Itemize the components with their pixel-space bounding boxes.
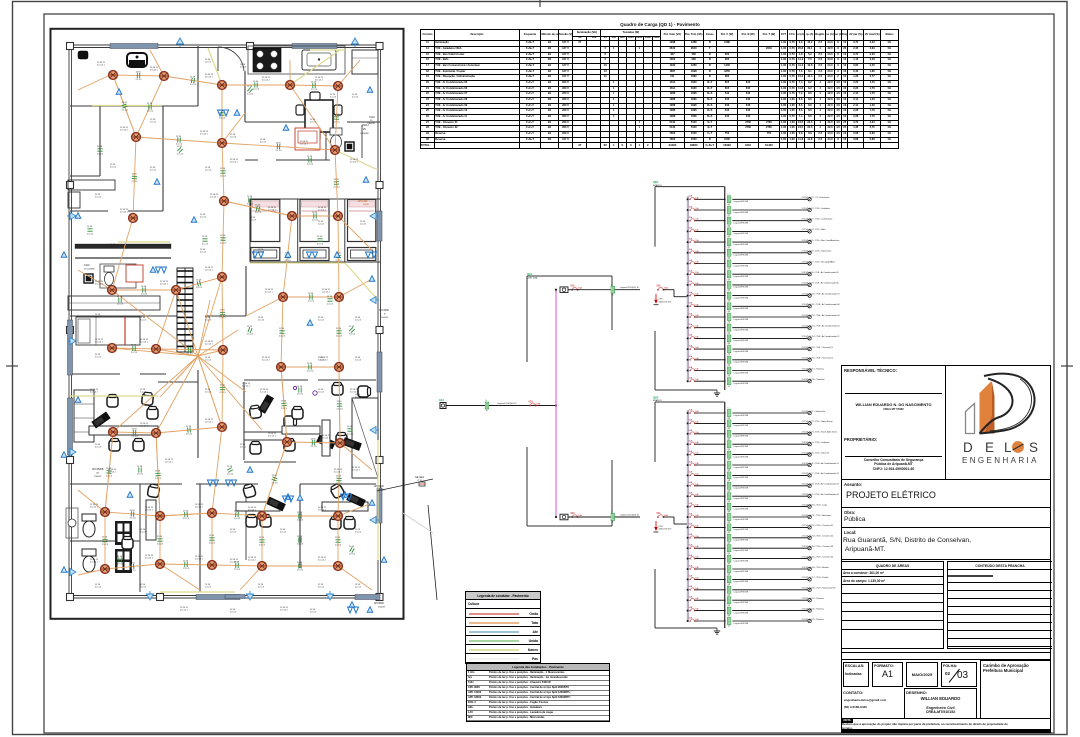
title block [841,365,1051,733]
svg-text:13 16: 13 16 [334,114,340,116]
enclosure [611,276,613,330]
lamp [808,273,811,276]
svg-text:2,5 2,5: 2,5 2,5 [150,122,157,124]
luminaire L18 [108,344,117,353]
legend row FOG 4 [467,701,609,706]
wall [70,175,100,177]
conduit tick [336,255,341,257]
svg-text:GE1: GE1 [439,399,444,402]
svg-text:Legrand FIM DIN: Legrand FIM DIN [734,339,749,342]
lamp [808,578,811,581]
svg-text:13 16: 13 16 [97,146,103,148]
conduit tick [312,440,314,445]
column [67,594,74,601]
svg-text:2#1,5(1,5) #12 - TUG - Chuvei: 2#1,5(1,5) #12 - TUG - Chuveiro 01 [802,525,834,527]
conduit tick [334,182,339,185]
svg-text:2#1,5(1,5) #21 - Reserva: 2#1,5(1,5) #21 - Reserva [802,619,825,621]
shower box [345,142,354,151]
conduit mark [727,532,731,544]
wire [198,277,222,356]
luminaire L19 [152,345,161,354]
conduit tick [220,387,225,389]
wire [105,432,113,512]
switch point [247,467,253,472]
svg-text:Legrand FIM DIN: Legrand FIM DIN [734,497,749,500]
svg-text:B: B [384,314,386,316]
wall [299,484,301,568]
svg-text:2,5 2,5: 2,5 2,5 [317,244,324,246]
wire [568,289,640,291]
breaker DJ0 [529,400,541,406]
svg-text:2,5 4,5 1: 2,5 4,5 1 [180,610,189,612]
wire [78,75,110,90]
svg-text:2#1,5(1,5) #15 - TUE - Chuvei: 2#1,5(1,5) #15 - TUE - Chuveiro 01 [802,347,834,349]
svg-text:1,5: 1,5 [727,354,730,356]
svg-text:1500W: 1500W [378,607,386,609]
svg-text:13 16: 13 16 [349,546,355,548]
svg-text:2,5 2,5: 2,5 2,5 [259,545,266,547]
point [313,391,317,395]
wire [176,290,198,356]
laptop [258,394,274,414]
lamp [808,619,811,622]
column [376,43,383,50]
chair [147,484,160,498]
svg-text:2,5 4,5 1: 2,5 4,5 1 [165,462,174,464]
lamp [808,326,811,329]
svg-text:63A: 63A [529,400,534,403]
svg-text:10A: 10A [695,431,699,434]
sink [68,519,76,527]
svg-text:2#1,5(1,5) #9 - TUE - Ar Cond: 2#1,5(1,5) #9 - TUE - Ar Condicionado 06 [802,282,840,285]
conduit mark [727,280,731,292]
svg-text:2,5 2,5: 2,5 2,5 [240,67,247,69]
wire [212,513,262,516]
wire [240,566,262,590]
svg-text:2,5 2,5: 2,5 2,5 [307,371,314,373]
svg-text:2,5 2,5: 2,5 2,5 [337,409,344,411]
svg-text:2,5 2,5: 2,5 2,5 [355,397,362,399]
camera [78,51,88,59]
svg-text:10A: 10A [695,207,699,210]
svg-text:Legrand FIM DIN: Legrand FIM DIN [734,350,749,353]
dps [654,294,672,305]
svg-text:13 16: 13 16 [141,286,147,288]
conduit mark [727,408,731,420]
branch breaker QD2-20 [689,606,700,611]
svg-text:2,5 2,5: 2,5 2,5 [308,301,315,303]
switch point [381,557,387,562]
desk [282,426,320,434]
svg-text:10A: 10A [695,357,699,360]
conduit tick [119,557,121,562]
branch node QD1-14 [687,337,689,339]
chair [133,439,144,452]
lamp [808,432,811,435]
enclosure [654,187,656,247]
leader [377,479,433,491]
svg-text:2,5 4,5 1: 2,5 4,5 1 [120,212,129,214]
switch point [150,267,156,272]
logo D thin ribbon stroke [990,379,1032,431]
branch breaker QD2-6 [689,460,700,465]
svg-text:10A: 10A [695,293,699,296]
svg-text:13 16: 13 16 [176,136,182,138]
svg-text:BIFASICO: BIFASICO [653,399,662,402]
column [67,457,74,464]
svg-text:10A: 10A [695,545,699,548]
wire [198,356,262,430]
svg-text:10A: 10A [695,524,699,527]
switch point [342,492,348,497]
chair [249,405,262,419]
svg-text:1,5: 1,5 [727,280,730,282]
branch breaker QD2-1 [689,408,700,413]
branch node QD1-11 [687,305,689,307]
svg-text:2#1,5(1,5) #1 - Iluminação: 2#1,5(1,5) #1 - Iluminação [802,410,826,413]
luminaire L35 [208,561,217,570]
wire [696,422,726,424]
svg-text:13 16: 13 16 [255,205,261,207]
svg-text:1,5: 1,5 [727,595,730,597]
wire [732,337,807,339]
wall [139,484,141,592]
svg-text:Legrand FIM DIN: Legrand FIM DIN [734,539,749,542]
luminaire L9 [129,214,138,223]
svg-text:50A: 50A [657,285,662,288]
svg-text:10A: 10A [695,218,699,221]
conduit mark [727,491,731,503]
svg-text:13 16: 13 16 [220,385,226,387]
svg-text:10A: 10A [695,250,699,253]
legend row Ate [466,627,540,636]
wire [732,284,807,286]
lamp [808,495,811,498]
wall [318,379,376,381]
conduit mark [727,301,731,313]
branch breaker QD2-5 [689,450,700,455]
svg-text:QD1: QD1 [653,180,659,184]
svg-text:2,5 2,5: 2,5 2,5 [327,304,334,306]
svg-text:2,5 2,5: 2,5 2,5 [247,204,254,206]
svg-text:10A: 10A [695,587,699,590]
wire [696,433,726,435]
svg-text:2,5 2,5: 2,5 2,5 [230,532,237,534]
lamp [808,567,811,570]
load table title [560,22,760,27]
conduit tick [133,430,136,435]
svg-text:2,5 4,5 1: 2,5 4,5 1 [160,284,169,286]
chair [284,416,297,427]
wire [732,422,807,424]
svg-text:Legrand FIM DIN: Legrand FIM DIN [734,414,749,417]
svg-text:1,5: 1,5 [727,553,730,555]
svg-text:1,5: 1,5 [727,439,730,441]
lamp [808,443,811,446]
svg-text:25: 25 [363,128,366,131]
laptop [91,412,110,429]
conduit mark [727,312,731,324]
window [377,352,382,392]
svg-text:GE GE1: GE GE1 [415,476,425,479]
svg-text:1,5: 1,5 [727,584,730,586]
svg-text:2,5 2,5: 2,5 2,5 [95,447,102,449]
wire [112,218,133,290]
wire [222,350,223,427]
svg-text:2,5 2,5: 2,5 2,5 [136,79,143,81]
wire [732,474,807,476]
stairs [177,268,193,352]
wall [162,106,164,211]
chair [334,105,342,115]
conduit mark [727,460,731,472]
laptop [316,435,336,450]
svg-text:2,5 2,5: 2,5 2,5 [219,118,226,120]
bus bar [687,410,689,622]
wire [283,296,339,298]
wire [663,289,674,291]
svg-text:2,5 2,5: 2,5 2,5 [130,518,137,520]
wall socket [247,591,254,600]
svg-text:2,5 2,5: 2,5 2,5 [355,447,362,449]
luminaire L22 [335,363,344,372]
double socket [217,110,229,116]
local row [842,528,1050,560]
svg-text:13 16: 13 16 [247,326,253,328]
svg-text:2,5 2,5: 2,5 2,5 [297,394,304,396]
svg-text:2,5 4,5 1: 2,5 4,5 1 [145,510,154,512]
svg-text:Legrand FIM DIN: Legrand FIM DIN [734,455,749,458]
lamp [808,588,811,591]
svg-text:16: 16 [611,522,613,524]
svg-text:2,5 2,5: 2,5 2,5 [183,568,190,570]
svg-text:2#1,5(1,5) #6 - TUG - Ar Cond: 2#1,5(1,5) #6 - TUG - Ar Condicionado 01 [802,462,840,465]
svg-text:2,5 4,5 1: 2,5 4,5 1 [350,162,359,164]
svg-text:Legrand FIM DIN: Legrand FIM DIN [734,243,749,246]
enclosure [654,569,656,628]
svg-text:2,5 2,5: 2,5 2,5 [276,150,283,152]
svg-text:2,5 2,5: 2,5 2,5 [97,154,104,156]
branch node QD2-16 [687,568,689,570]
svg-text:2,5 4,5 1: 2,5 4,5 1 [90,507,99,509]
wire [732,506,807,508]
branch breaker QD1-18 [689,377,700,382]
wall socket [370,297,379,304]
wire [663,516,674,518]
wire [696,337,726,339]
conduit tick [349,327,354,332]
wire [338,503,372,516]
svg-text:C4000W: C4000W [367,123,375,125]
wire [732,370,807,372]
svg-text:2,5 2,5: 2,5 2,5 [220,176,227,178]
cabinet [74,390,94,442]
enclosure [724,187,726,390]
conduit mark [727,616,731,628]
svg-text:2,5 2,5: 2,5 2,5 [258,252,265,254]
wire [262,565,338,567]
svg-text:2,5 4,5 1: 2,5 4,5 1 [318,560,327,562]
svg-text:Legrand FIM DIN: Legrand FIM DIN [734,275,749,278]
wire [113,75,164,76]
svg-text:2#1,5(1,5) #6 - TUG - Impress: 2#1,5(1,5) #6 - TUG - Impressora [802,251,833,253]
svg-text:2#1,5(1,5) #4 - TUG - Gabinet: 2#1,5(1,5) #4 - TUG - Gabinete [802,441,831,444]
switch point [285,494,291,499]
conduit tick [279,331,284,334]
wire [136,137,222,143]
svg-text:2#1,5(1,5) #14 - TUG - Chuvei: 2#1,5(1,5) #14 - TUG - Chuveiro 03 [802,546,834,548]
svg-text:2,5 2,5: 2,5 2,5 [150,170,157,172]
branch node QD1-15 [687,348,689,350]
svg-text:2,5 4,5 1: 2,5 4,5 1 [248,510,257,512]
wire [732,610,807,612]
outer wall left inner [71,47,73,596]
branch breaker QD2-3 [689,429,700,434]
drawing frame [51,29,404,619]
conduit mark [727,574,731,586]
conduit tick [139,467,141,472]
wire [156,349,223,350]
svg-text:2,5 4,5 1: 2,5 4,5 1 [230,162,239,164]
svg-text:13 16: 13 16 [122,102,128,104]
svg-text:1500W: 1500W [381,317,389,319]
wire [732,295,807,297]
wire [198,300,210,356]
svg-text:20kA 175V 8/20: 20kA 175V 8/20 [659,528,672,531]
luminaire L20 [219,346,228,355]
luminaire L28 [101,508,110,517]
sink bowl [307,53,331,66]
wall socket [352,38,359,47]
wire [732,305,807,307]
wire [112,348,198,356]
svg-text:2,5 2,5: 2,5 2,5 [87,234,94,236]
wall [70,210,108,212]
wire [283,216,292,297]
conduit tick [131,564,134,569]
conduit mark [727,584,731,596]
svg-text:2#1,5(1,5) #18 - TUG - Ilumin: 2#1,5(1,5) #18 - TUG - Iluminação Ext [802,587,836,590]
wire [198,356,222,427]
point [293,386,296,389]
svg-text:2,5 2,5: 2,5 2,5 [95,587,102,589]
wire [112,348,156,349]
chair [109,439,120,452]
counter line [68,302,160,304]
wire [732,558,807,560]
legend row Tata [466,618,540,627]
wire [78,270,112,290]
luminaire L27 [336,439,345,448]
svg-text:2#1,5(1,5) #13 - TUG - Chuvei: 2#1,5(1,5) #13 - TUG - Chuveiro 02 [802,536,834,538]
wire [696,568,726,570]
chair [242,483,256,498]
wire [696,599,726,601]
svg-text:CHU: CHU [84,263,90,267]
luminaire L6 [132,133,141,142]
svg-text:APC1500B: APC1500B [92,468,104,471]
conduit tick [247,87,252,93]
bench inner [298,131,317,143]
svg-text:2,5 4,5 1: 2,5 4,5 1 [140,426,149,428]
wall [128,210,163,212]
svg-text:Legrand 2#10(10) 10: Legrand 2#10(10) 10 [620,515,640,517]
centering mark right [1061,365,1073,367]
svg-text:Legrand FIM DIN: Legrand FIM DIN [734,232,749,235]
wire [113,75,136,137]
svg-text:13 16: 13 16 [247,196,253,198]
chair [358,386,371,397]
conduit tick [259,540,264,542]
conduit mark [727,470,731,482]
svg-text:13 16: 13 16 [130,563,136,565]
branch breaker QD2-9 [689,492,700,497]
branch node QD2-2 [687,422,689,424]
svg-text:2#1,5(1,5) #10 - TUG - Copa: 2#1,5(1,5) #10 - TUG - Copa [802,504,828,506]
svg-text:2,5 2,5: 2,5 2,5 [297,520,304,522]
switch point [116,89,122,94]
switch point [285,252,291,257]
shower [347,144,352,149]
conduit tick [236,512,239,517]
wire [732,327,807,329]
svg-text:2,5 2,5: 2,5 2,5 [334,187,341,189]
svg-text:2,5 2,5: 2,5 2,5 [122,110,129,112]
branch node QD2-18 [687,589,689,591]
wire [696,443,726,445]
wire [290,85,335,150]
conduit mark [727,595,731,607]
enclosure [724,402,726,628]
svg-text:1,5: 1,5 [727,428,730,430]
wire [696,412,726,414]
wire [176,277,222,290]
camera [127,53,147,67]
svg-text:2,5 4,5 1: 2,5 4,5 1 [334,472,343,474]
branch breaker QD1-14 [689,334,700,339]
svg-text:1,5: 1,5 [727,616,730,618]
svg-text:Legrand FIM DIN: Legrand FIM DIN [734,254,749,257]
svg-text:1,5: 1,5 [727,460,730,462]
svg-text:Legrand FIM DIN: Legrand FIM DIN [734,570,749,573]
switch point [369,276,375,281]
svg-text:Legrand FIM DIN: Legrand FIM DIN [734,318,749,321]
conduit tick [327,299,332,301]
wall [243,382,245,460]
svg-text:2,5 4,5 1: 2,5 4,5 1 [90,392,99,394]
svg-text:2,5 4,5 1: 2,5 4,5 1 [195,559,204,561]
wire [732,464,807,466]
wire [164,76,222,85]
wire [156,433,160,516]
svg-text:2,5 2,5: 2,5 2,5 [130,570,137,572]
branch breaker QD1-16 [689,355,700,360]
svg-text:13 16: 13 16 [209,535,215,537]
legend row MIC [467,716,609,721]
conduit mark [727,449,731,461]
bench [295,128,320,150]
svg-text:2#1,5(1,5) #11 - TUG - Banhei: 2#1,5(1,5) #11 - TUG - Banheiros [802,515,832,517]
svg-text:2,5 2,5: 2,5 2,5 [110,247,117,249]
svg-text:2,5 2,5: 2,5 2,5 [336,336,343,338]
switch point [127,492,133,497]
luminaire L21 [277,363,286,372]
conduit mark [611,512,615,524]
cabinet shelf [74,417,94,419]
svg-text:2,5 2,5: 2,5 2,5 [247,334,254,336]
wire [335,150,378,170]
chair [336,433,347,446]
